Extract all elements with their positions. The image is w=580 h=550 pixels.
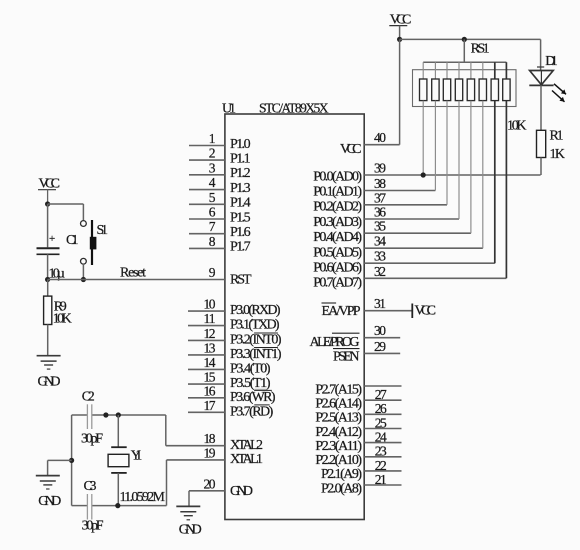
svg-text:R1: R1 (550, 129, 564, 144)
svg-text:P0.5(AD5): P0.5(AD5) (313, 245, 362, 260)
svg-text:10: 10 (204, 297, 216, 312)
svg-text:P0.1(AD1): P0.1(AD1) (313, 185, 362, 200)
svg-text:EA/VPP: EA/VPP (322, 304, 361, 319)
svg-text:25: 25 (375, 415, 387, 430)
svg-text:GND: GND (230, 484, 253, 499)
svg-text:P1.2: P1.2 (230, 166, 251, 181)
svg-text:10K: 10K (507, 118, 527, 133)
svg-text:P3.4(T0): P3.4(T0) (230, 361, 271, 376)
svg-text:29: 29 (374, 339, 386, 354)
svg-text:39: 39 (374, 161, 386, 176)
svg-text:P2.1(A9): P2.1(A9) (321, 467, 362, 482)
svg-text:P3.7(RD): P3.7(RD) (230, 404, 274, 419)
svg-text:P0.7(AD7): P0.7(AD7) (313, 276, 362, 291)
svg-text:RST: RST (230, 273, 252, 288)
svg-text:40: 40 (374, 130, 386, 145)
svg-text:P3.3(INT1): P3.3(INT1) (230, 347, 282, 362)
svg-text:P1.5: P1.5 (230, 210, 251, 225)
svg-text:PSEN: PSEN (333, 349, 360, 364)
svg-text:XTAL1: XTAL1 (230, 452, 263, 467)
svg-text:C2: C2 (82, 390, 95, 405)
svg-text:1: 1 (209, 131, 216, 146)
svg-text:P0.4(AD4): P0.4(AD4) (313, 230, 362, 245)
svg-text:P0.2(AD2): P0.2(AD2) (313, 200, 362, 215)
svg-text:VCC: VCC (340, 142, 362, 157)
svg-text:23: 23 (375, 444, 387, 459)
svg-text:P3.6(WR): P3.6(WR) (230, 390, 276, 405)
svg-text:20: 20 (204, 476, 216, 491)
svg-text:6: 6 (209, 205, 216, 220)
svg-text:33: 33 (374, 249, 386, 264)
svg-text:7: 7 (209, 219, 216, 234)
svg-text:P2.6(A14): P2.6(A14) (315, 397, 362, 412)
svg-text:Y1: Y1 (131, 449, 143, 464)
svg-text:11.0592M: 11.0592M (120, 490, 166, 505)
svg-text:10K: 10K (53, 312, 72, 327)
svg-text:P1.6: P1.6 (230, 225, 251, 240)
svg-text:XTAL2: XTAL2 (230, 438, 263, 453)
svg-text:36: 36 (374, 205, 386, 220)
svg-text:RS1: RS1 (471, 42, 490, 57)
svg-text:P2.3(A11): P2.3(A11) (315, 439, 362, 454)
svg-text:2: 2 (209, 146, 216, 161)
svg-text:P0.0(AD0): P0.0(AD0) (313, 169, 362, 184)
svg-text:9: 9 (209, 265, 216, 280)
svg-text:P3.1(TXD): P3.1(TXD) (230, 318, 280, 333)
svg-text:21: 21 (375, 472, 387, 487)
svg-text:3: 3 (209, 160, 216, 175)
svg-text:38: 38 (374, 176, 386, 191)
svg-text:P2.2(A10): P2.2(A10) (315, 453, 362, 468)
svg-text:24: 24 (375, 430, 387, 445)
svg-text:C3: C3 (84, 479, 97, 494)
svg-text:P1.7: P1.7 (230, 240, 251, 255)
svg-text:S1: S1 (97, 223, 109, 238)
svg-text:17: 17 (204, 398, 216, 413)
svg-text:P3.0(RXD): P3.0(RXD) (230, 303, 281, 318)
svg-text:18: 18 (204, 431, 216, 446)
svg-text:VCC: VCC (415, 304, 437, 319)
svg-text:35: 35 (374, 219, 386, 234)
svg-text:14: 14 (204, 355, 216, 370)
svg-text:P2.0(A8): P2.0(A8) (321, 481, 362, 496)
svg-text:P2.7(A15): P2.7(A15) (315, 382, 362, 397)
svg-text:30pF: 30pF (82, 519, 104, 534)
svg-text:Reset: Reset (120, 266, 146, 281)
svg-text:ALE/PROG: ALE/PROG (310, 335, 360, 350)
svg-text:GND: GND (179, 523, 202, 538)
svg-text:26: 26 (375, 401, 387, 416)
svg-text:P0.6(AD6): P0.6(AD6) (313, 261, 362, 276)
svg-text:4: 4 (209, 175, 216, 190)
svg-text:8: 8 (209, 234, 216, 249)
svg-text:12: 12 (204, 326, 216, 341)
svg-text:P1.4: P1.4 (230, 196, 251, 211)
svg-text:5: 5 (209, 190, 216, 205)
svg-text:D1: D1 (545, 54, 558, 69)
svg-text:30: 30 (374, 323, 386, 338)
svg-text:STC/AT89X5X: STC/AT89X5X (259, 100, 329, 115)
svg-text:27: 27 (375, 387, 387, 402)
svg-text:P2.5(A13): P2.5(A13) (315, 411, 362, 426)
svg-text:P1.3: P1.3 (230, 181, 251, 196)
svg-text:P1.0: P1.0 (230, 137, 251, 152)
svg-text:GND: GND (38, 374, 61, 389)
svg-text:31: 31 (374, 296, 386, 311)
svg-text:37: 37 (374, 190, 386, 205)
svg-text:34: 34 (374, 234, 386, 249)
svg-text:P2.4(A12): P2.4(A12) (315, 425, 362, 440)
svg-text:1K: 1K (550, 147, 566, 162)
svg-text:19: 19 (204, 445, 216, 460)
svg-text:C1: C1 (66, 233, 79, 248)
svg-text:22: 22 (375, 458, 387, 473)
svg-text:13: 13 (204, 340, 216, 355)
svg-text:32: 32 (374, 264, 386, 279)
svg-text:P1.1: P1.1 (230, 151, 251, 166)
svg-text:16: 16 (204, 383, 216, 398)
svg-text:P3.2(INT0): P3.2(INT0) (230, 332, 282, 347)
svg-text:GND: GND (38, 494, 61, 509)
svg-text:P0.3(AD3): P0.3(AD3) (313, 215, 362, 230)
svg-text:30pF: 30pF (81, 432, 103, 447)
svg-text:11: 11 (204, 311, 216, 326)
svg-text:+: + (49, 233, 55, 245)
svg-text:U1: U1 (222, 101, 236, 116)
